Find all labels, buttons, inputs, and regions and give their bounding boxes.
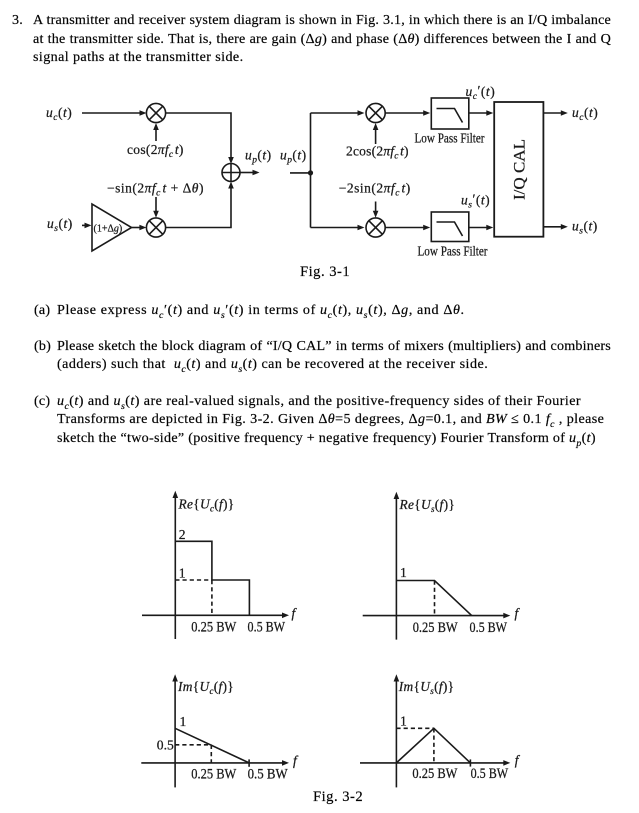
svg-text:1: 1 bbox=[179, 565, 186, 580]
graph4 x-axis bbox=[360, 760, 510, 766]
graph4 title Im{Us(f)} bbox=[398, 679, 455, 696]
mixer M2 (multiplier) bbox=[146, 218, 165, 237]
svg-text:us(t): us(t) bbox=[47, 216, 73, 234]
svg-text:Low Pass Filter: Low Pass Filter bbox=[418, 243, 488, 258]
svg-text:I/Q CAL: I/Q CAL bbox=[511, 139, 529, 200]
graph2 spectrum curve bbox=[396, 581, 471, 616]
svg-text:cos(2πfc t): cos(2πfc t) bbox=[127, 142, 184, 160]
graph4 tick label 0.25 BW bbox=[412, 766, 458, 782]
graph1 spectrum step curve bbox=[175, 541, 249, 615]
wire LPF1 to IQ CAL bbox=[469, 110, 494, 116]
label -2sin(2pi fc t) bbox=[339, 181, 411, 199]
graph2 axis label f bbox=[515, 606, 521, 621]
IQ CAL block bbox=[494, 102, 543, 237]
label us'(t) bbox=[461, 191, 490, 210]
item (a) bbox=[34, 301, 50, 319]
graph1 dashed level-1 line bbox=[175, 579, 212, 581]
wire M2 to adder A1 bbox=[166, 182, 234, 228]
wire M1 to adder A1 bbox=[166, 113, 234, 164]
label us(t) output bbox=[572, 219, 598, 237]
graph1 tick label 0.5 BW bbox=[248, 619, 286, 635]
adder A1 (combiner) bbox=[222, 164, 240, 182]
svg-text:us(t): us(t) bbox=[572, 219, 598, 237]
figure 3-2 caption bbox=[313, 788, 363, 806]
LPF1 response curve bbox=[437, 109, 463, 123]
svg-text:0.5 BW: 0.5 BW bbox=[248, 767, 289, 783]
label Low Pass Filter (top) bbox=[415, 131, 485, 146]
arrow -2sin into M4 bbox=[373, 202, 379, 218]
label cos(2pi fc t) bbox=[127, 142, 184, 160]
mixer M1 (multiplier) bbox=[146, 103, 165, 122]
graph3 x-axis bbox=[141, 760, 289, 766]
svg-text:0.5 BW: 0.5 BW bbox=[470, 620, 508, 636]
graph4 value label 1 bbox=[400, 713, 407, 728]
graph4 tick 0.5BW bbox=[469, 759, 471, 766]
graph3 title Im{Uc(f)} bbox=[177, 679, 234, 696]
wire node to mixer M3 bbox=[311, 110, 365, 116]
wire M3 to LPF1 bbox=[385, 110, 430, 116]
svg-text:f: f bbox=[515, 753, 521, 768]
graph3 spectrum line bbox=[175, 728, 249, 763]
graph1 axis label f bbox=[292, 606, 298, 621]
wire LPF2 to IQ CAL bbox=[469, 225, 494, 231]
mixer M4 (multiplier) bbox=[366, 218, 385, 237]
svg-text:0.5: 0.5 bbox=[157, 738, 174, 753]
wire us(t) to amplifier bbox=[82, 223, 92, 229]
figure 3-1 caption bbox=[300, 263, 350, 281]
graph1 x-axis bbox=[142, 613, 289, 619]
graph4 dashed 0.25BW line bbox=[433, 728, 435, 763]
label -sin(2pi fc t + dtheta) bbox=[107, 181, 204, 199]
svg-text:0.25 BW: 0.25 BW bbox=[191, 767, 237, 783]
graph2 x-axis bbox=[363, 613, 511, 619]
node junction dot bbox=[308, 170, 313, 175]
svg-text:0.25 BW: 0.25 BW bbox=[191, 619, 237, 635]
label us(t) input bbox=[47, 216, 73, 234]
graph3 tick label 0.5 BW bbox=[248, 767, 289, 783]
mixer M3 (multiplier) bbox=[366, 103, 385, 122]
arrow IQ CAL to uc(t) output bbox=[543, 110, 567, 116]
graph3 value label 1 bbox=[180, 714, 187, 729]
graph2 tick label 0.5 BW bbox=[470, 620, 508, 636]
LPF2 response curve bbox=[437, 222, 463, 236]
svg-text:uc′(t): uc′(t) bbox=[466, 83, 496, 102]
label up(t) at adder output bbox=[245, 147, 272, 165]
wire node vertical split bbox=[310, 113, 312, 228]
label (1+dg) bbox=[94, 224, 123, 235]
graph3 dashed level-0.5 line bbox=[175, 744, 211, 746]
arrow -sin into M2 bbox=[153, 197, 159, 218]
graph3 y-axis bbox=[172, 674, 178, 787]
arrow IQ CAL to us(t) output bbox=[543, 224, 567, 230]
label uc(t) input bbox=[46, 105, 72, 123]
svg-text:us′(t): us′(t) bbox=[461, 191, 490, 210]
arrow 2cos into M3 bbox=[373, 123, 379, 144]
low pass filter LPF1 box bbox=[431, 98, 469, 129]
item (c) line 1 bbox=[34, 392, 50, 410]
graph1 value label 2 bbox=[179, 527, 186, 542]
graph4 tick label 0.5 BW bbox=[471, 766, 509, 782]
graph3 tick label 0.25 BW bbox=[191, 767, 237, 783]
item (b) line 2 bbox=[57, 355, 488, 379]
graph4 dashed level-1 line bbox=[396, 727, 434, 729]
svg-text:f: f bbox=[293, 753, 299, 768]
amplifier (1+dg) triangle bbox=[92, 204, 132, 251]
graph2 dashed 0.25BW line bbox=[434, 581, 436, 616]
svg-text:2: 2 bbox=[179, 527, 186, 542]
svg-text:f: f bbox=[292, 606, 298, 621]
svg-text:0.25 BW: 0.25 BW bbox=[412, 766, 458, 782]
graph4 spectrum triangle curve bbox=[396, 728, 470, 763]
svg-text:Low Pass Filter: Low Pass Filter bbox=[415, 131, 485, 146]
graph2 tick label 0.25 BW bbox=[413, 620, 459, 636]
wire uc(t) to mixer M1 bbox=[82, 110, 147, 116]
svg-text:1: 1 bbox=[400, 565, 407, 580]
graph1 tick label 0.25 BW bbox=[191, 619, 237, 635]
svg-text:up(t): up(t) bbox=[245, 147, 272, 165]
paragraph: problem statement line 2 bbox=[33, 30, 611, 48]
svg-text:1: 1 bbox=[400, 713, 407, 728]
label uc(t) output bbox=[572, 105, 598, 123]
svg-text:0.25 BW: 0.25 BW bbox=[413, 620, 459, 636]
svg-text:up(t): up(t) bbox=[280, 147, 307, 165]
svg-text:Im{Us(f)}: Im{Us(f)} bbox=[398, 679, 455, 696]
svg-text:Re{Uc(f)}: Re{Uc(f)} bbox=[178, 497, 235, 514]
svg-text:Re{Us(f)}: Re{Us(f)} bbox=[399, 497, 456, 514]
svg-text:−sin(2πfc t + Δθ): −sin(2πfc t + Δθ) bbox=[107, 181, 204, 199]
svg-text:f: f bbox=[515, 606, 521, 621]
svg-text:Im{Uc(f)}: Im{Uc(f)} bbox=[177, 679, 234, 696]
svg-text:0.5 BW: 0.5 BW bbox=[471, 766, 509, 782]
paragraph: problem statement line 1 bbox=[12, 11, 23, 29]
paragraph: problem statement line 3 bbox=[33, 48, 244, 66]
svg-text:0.5 BW: 0.5 BW bbox=[248, 619, 286, 635]
svg-text:1: 1 bbox=[180, 714, 187, 729]
arrow A1 output bbox=[240, 170, 260, 176]
item (b) line 1 bbox=[34, 337, 51, 355]
graph1 y-axis bbox=[173, 491, 179, 639]
graph3 dashed 0.25BW line bbox=[210, 745, 212, 763]
arrow amplifier to mixer M2 bbox=[132, 225, 147, 231]
graph2 y-axis bbox=[394, 492, 400, 640]
low pass filter LPF2 box bbox=[431, 212, 469, 242]
item (c) line 3 bbox=[57, 429, 596, 453]
label uc'(t) bbox=[466, 83, 496, 102]
graph1 title Re{Uc(f)} bbox=[178, 497, 235, 514]
label up(t) receiver input bbox=[280, 147, 307, 165]
svg-text:(1+Δg): (1+Δg) bbox=[94, 224, 123, 235]
svg-text:uc(t): uc(t) bbox=[46, 105, 72, 123]
svg-text:uc(t): uc(t) bbox=[572, 105, 598, 123]
graph3 axis label f bbox=[293, 753, 299, 768]
wire M4 to LPF2 bbox=[385, 225, 430, 231]
graph4 axis label f bbox=[515, 753, 521, 768]
wire node to mixer M4 bbox=[311, 225, 365, 231]
graph1 value label 1 bbox=[179, 565, 186, 580]
graph3 value label 0.5 bbox=[157, 738, 174, 753]
graph2 title Re{Us(f)} bbox=[399, 497, 456, 514]
graph1 dashed 0.25BW line bbox=[211, 580, 213, 615]
arrow cos into M1 bbox=[153, 123, 159, 141]
label Low Pass Filter (bottom) bbox=[418, 243, 488, 258]
wire up(t) stub into node bbox=[290, 172, 311, 174]
label I/Q CAL bbox=[511, 139, 529, 200]
svg-text:−2sin(2πfc t): −2sin(2πfc t) bbox=[339, 181, 411, 199]
graph2 value label 1 bbox=[400, 565, 407, 580]
item (c) line 2 bbox=[57, 410, 604, 434]
label 2cos(2pi fc t) bbox=[346, 143, 409, 161]
graph3 tick 0.5BW bbox=[248, 759, 250, 766]
graph4 y-axis bbox=[394, 674, 400, 787]
svg-text:2cos(2πfc t): 2cos(2πfc t) bbox=[346, 143, 409, 161]
